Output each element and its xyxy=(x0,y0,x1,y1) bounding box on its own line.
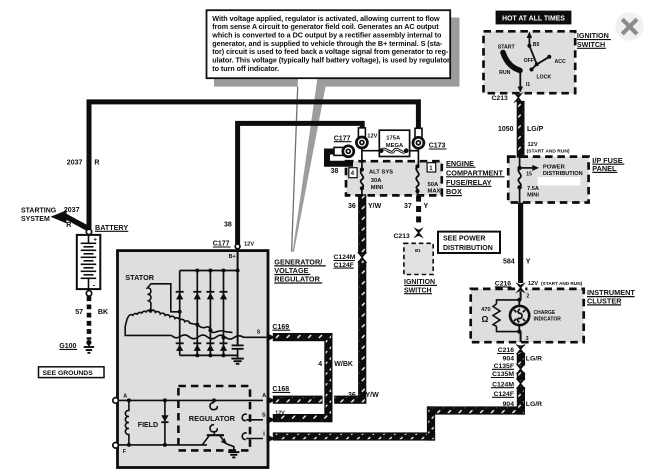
pin A at connector C168 xyxy=(267,396,276,405)
wire 38 to generator xyxy=(238,123,363,244)
svg-text:A: A xyxy=(262,393,266,399)
svg-text:ALT SYS: ALT SYS xyxy=(369,170,393,176)
fuse 50A MAXI xyxy=(415,163,442,196)
node B+ bus junction xyxy=(236,269,240,273)
wire battery B+ run (2037 R) xyxy=(89,102,418,230)
svg-text:12V: 12V xyxy=(275,411,285,417)
svg-text:4: 4 xyxy=(318,361,322,368)
svg-text:DISTRIBUTION: DISTRIBUTION xyxy=(443,245,493,252)
HOT AT ALL TIMES banner xyxy=(496,11,572,25)
pin S at connector C169 xyxy=(267,333,276,342)
junction dots rectifier buses xyxy=(195,269,225,358)
ground (regulator) xyxy=(227,444,240,458)
eyelet C173 xyxy=(413,128,424,148)
eyelet 12V xyxy=(356,128,367,148)
svg-text:SEE GROUNDS: SEE GROUNDS xyxy=(43,370,94,377)
svg-text:57: 57 xyxy=(75,309,83,316)
pin S at connector C168 xyxy=(267,416,276,425)
svg-text:12V: 12V xyxy=(367,134,377,140)
svg-text:W/BK: W/BK xyxy=(334,361,353,368)
regulator S terminal hook xyxy=(242,414,247,421)
note box shadow xyxy=(214,18,460,87)
I/P fuse panel internals xyxy=(517,157,582,203)
diode D1 xyxy=(176,292,184,300)
svg-text:IGNITION: IGNITION xyxy=(577,31,609,40)
svg-text:SEE POWER: SEE POWER xyxy=(443,236,485,243)
svg-text:12V: 12V xyxy=(244,241,254,247)
connector C216 (cluster top) xyxy=(515,282,525,293)
svg-text:MEGA: MEGA xyxy=(386,143,404,149)
wire A sense line internal xyxy=(118,399,263,401)
wire rectifier ground bus xyxy=(180,354,238,356)
node battery positive junction xyxy=(86,229,91,234)
connector C216 (cluster bottom) xyxy=(515,344,525,355)
SEE POWER DISTRIBUTION box xyxy=(438,232,500,253)
svg-text:LOCK: LOCK xyxy=(537,75,552,81)
svg-text:R: R xyxy=(94,160,99,167)
svg-text:I1: I1 xyxy=(526,82,530,88)
svg-text:BK: BK xyxy=(98,309,108,316)
wire 904 LG/R I-circuit (hatched) xyxy=(274,433,435,440)
instrument cluster box xyxy=(471,289,584,342)
SEE GROUNDS box xyxy=(39,367,105,378)
svg-text:Y: Y xyxy=(424,203,429,210)
connector C124M/C124F (wire 904) xyxy=(515,378,525,389)
svg-text:904: 904 xyxy=(503,401,515,408)
i/p fuse panel box xyxy=(508,157,588,203)
ignition switch box xyxy=(484,31,576,93)
regulator U1 dashed box xyxy=(178,386,250,450)
diode field suppression xyxy=(161,400,168,445)
svg-text:ENGINE: ENGINE xyxy=(446,159,474,168)
wire 37 Y xyxy=(416,196,421,227)
svg-text:(START AND RUN): (START AND RUN) xyxy=(541,281,583,286)
svg-text:R: R xyxy=(66,222,71,229)
svg-text:REGULATOR: REGULATOR xyxy=(274,275,320,284)
terminal A (generator case) xyxy=(113,398,119,404)
svg-text:B5: B5 xyxy=(533,42,540,48)
svg-text:Y/W: Y/W xyxy=(368,203,382,210)
wire 57 BK battery ground xyxy=(87,296,92,340)
svg-text:HOT AT ALL TIMES: HOT AT ALL TIMES xyxy=(502,15,565,22)
svg-text:C213: C213 xyxy=(394,233,410,240)
svg-text:CHARGE: CHARGE xyxy=(534,310,556,316)
svg-text:B+: B+ xyxy=(229,254,236,260)
svg-text:LG/P: LG/P xyxy=(527,126,544,133)
wire S line internal xyxy=(246,419,263,421)
svg-text:FIELD: FIELD xyxy=(138,422,158,429)
wire 1050 LG/P (hatched) xyxy=(517,102,523,157)
svg-text:MAXI: MAXI xyxy=(428,189,443,195)
diode D4 xyxy=(220,292,228,300)
terminal F (generator case) xyxy=(113,443,119,449)
diode D6 xyxy=(193,343,201,351)
svg-text:REGULATOR: REGULATOR xyxy=(189,414,236,423)
eyelet C177 xyxy=(334,146,354,157)
svg-text:S: S xyxy=(257,329,261,335)
svg-text:2037: 2037 xyxy=(64,207,80,214)
regulator sense hook on A line xyxy=(210,402,217,409)
svg-text:SWITCH: SWITCH xyxy=(577,40,605,49)
svg-text:RUN: RUN xyxy=(499,70,510,76)
ignition switch internals xyxy=(498,32,566,93)
svg-text:INDICATOR: INDICATOR xyxy=(534,317,562,323)
svg-text:3: 3 xyxy=(526,336,529,342)
svg-text:POWER: POWER xyxy=(543,165,566,171)
wire 38 C177 jumper xyxy=(327,152,353,164)
wire I line internal xyxy=(246,438,263,440)
wire 4 W/BK C169-S loop (hatched) xyxy=(274,334,332,341)
diode D5 xyxy=(176,343,184,351)
svg-text:C213: C213 xyxy=(492,95,508,102)
callout tail xyxy=(291,78,327,252)
svg-text:OFF: OFF xyxy=(524,58,534,64)
diode D2 xyxy=(193,292,201,300)
wire B+ internal feed xyxy=(237,249,239,345)
svg-text:Ω: Ω xyxy=(482,314,489,324)
stator windings xyxy=(125,284,266,340)
close button xyxy=(615,12,643,40)
wire rectifier legs xyxy=(180,271,224,356)
svg-text:1050: 1050 xyxy=(498,126,514,133)
svg-text:BOX: BOX xyxy=(446,187,462,196)
svg-text:LG/R: LG/R xyxy=(526,401,542,408)
svg-text:175A: 175A xyxy=(386,136,401,142)
svg-text:BATTERY: BATTERY xyxy=(95,223,128,232)
svg-text:DISTRIBUTION: DISTRIBUTION xyxy=(543,171,583,177)
svg-text:MINI: MINI xyxy=(371,185,384,191)
diode D7 xyxy=(206,343,214,351)
ground (generator internal) xyxy=(231,355,243,363)
regulator I terminal hook xyxy=(242,433,247,440)
svg-text:Y/W: Y/W xyxy=(366,392,380,399)
svg-text:50A: 50A xyxy=(428,182,439,188)
svg-text:B1: B1 xyxy=(415,248,421,253)
svg-text:(START AND RUN): (START AND RUN) xyxy=(527,149,570,155)
svg-text:A: A xyxy=(123,393,127,399)
connector C135F/C135M xyxy=(515,363,525,374)
engine compartment fuse/relay box xyxy=(346,161,442,195)
connector C213 (wire 37) xyxy=(413,227,423,238)
svg-text:STATOR: STATOR xyxy=(125,273,155,282)
junction dots field circuit xyxy=(127,398,167,447)
svg-text:12V: 12V xyxy=(528,142,538,148)
wire 584 Y xyxy=(518,203,523,283)
field coil L1 xyxy=(125,400,129,445)
node regulator A pickup xyxy=(212,398,216,402)
svg-text:FUSE/RELAY: FUSE/RELAY xyxy=(446,178,492,187)
svg-text:38: 38 xyxy=(331,168,339,175)
svg-text:PANEL: PANEL xyxy=(592,164,617,173)
svg-text:15: 15 xyxy=(526,172,532,178)
wire 36 to C168 A horizontal (hatched) xyxy=(274,396,366,403)
instrument cluster internals xyxy=(481,289,561,342)
svg-text:STARTING: STARTING xyxy=(21,207,57,214)
svg-text:36: 36 xyxy=(348,392,356,399)
ignition switch reference box xyxy=(404,243,433,274)
svg-text:584: 584 xyxy=(503,258,515,265)
svg-text:ACC: ACC xyxy=(555,59,566,65)
regulator base hook xyxy=(210,425,217,432)
svg-text:2: 2 xyxy=(527,294,530,300)
diode D8 xyxy=(220,343,228,351)
svg-text:LG/R: LG/R xyxy=(526,355,542,362)
capacitor C (generator suppression) xyxy=(232,345,244,355)
wire 36 Y/W vertical (hatched) xyxy=(359,195,366,403)
connector C213 (ignition switch) xyxy=(513,92,523,103)
battery xyxy=(77,235,101,296)
generator/voltage regulator box xyxy=(118,251,269,468)
wire F field line internal xyxy=(118,444,207,446)
svg-text:2037: 2037 xyxy=(67,160,83,167)
transistor Q1 xyxy=(202,432,227,445)
svg-text:30A: 30A xyxy=(371,178,382,184)
svg-text:SYSTEM: SYSTEM xyxy=(21,216,50,223)
svg-text:38: 38 xyxy=(224,221,232,228)
note text box xyxy=(207,10,451,78)
halo crossing xyxy=(323,395,335,405)
svg-text:904: 904 xyxy=(503,355,515,362)
wire rectifier B+ bus xyxy=(180,270,238,272)
node B+ terminal (generator) xyxy=(235,244,240,249)
svg-text:CLUSTER: CLUSTER xyxy=(587,297,622,306)
svg-text:37: 37 xyxy=(404,203,412,210)
svg-text:S: S xyxy=(262,413,266,419)
svg-text:470: 470 xyxy=(481,307,490,313)
svg-text:36: 36 xyxy=(348,203,356,210)
ground G100 xyxy=(84,340,94,353)
diode D3 xyxy=(206,292,214,300)
connector C124M/C124F (wire 36) xyxy=(357,252,367,263)
wire to starting system xyxy=(64,216,88,229)
svg-text:COMPARTMENT: COMPARTMENT xyxy=(446,168,504,177)
svg-text:12V: 12V xyxy=(528,281,538,287)
svg-text:to turn off indicator.: to turn off indicator. xyxy=(212,64,279,73)
fuse ALT SYS 30A MINI xyxy=(349,167,393,195)
svg-text:7.5A: 7.5A xyxy=(527,186,539,192)
svg-text:Y: Y xyxy=(526,258,531,265)
svg-text:+: + xyxy=(93,237,97,244)
svg-text:START: START xyxy=(498,44,516,50)
svg-text:MINI: MINI xyxy=(527,192,539,198)
mega fuse 175A xyxy=(362,130,419,169)
pin I at connector C168 xyxy=(267,434,276,443)
